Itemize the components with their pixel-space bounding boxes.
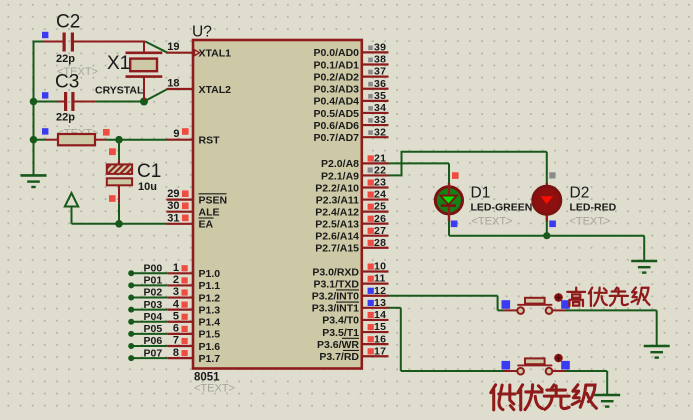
pin 36 P0.3/AD3 stub: [362, 88, 389, 90]
svg-text:9: 9: [173, 128, 179, 140]
wire P03 to pin 4: [131, 309, 193, 311]
pin 35 P0.4/AD4 stub: [362, 100, 389, 102]
power arrow node: [65, 193, 78, 224]
indicator square SW1 right: [561, 300, 570, 309]
pin label PSEN: [199, 194, 228, 207]
indicator square pin 23: [368, 180, 374, 186]
svg-text:P03: P03: [144, 299, 163, 311]
svg-text:PSEN: PSEN: [199, 194, 228, 206]
indicator square pin 37: [368, 70, 373, 75]
svg-text:33: 33: [374, 114, 386, 126]
pin label P0.7/AD7: [313, 132, 359, 144]
net label 低优先级 (low priority): [491, 385, 597, 410]
pin label P1.6: [199, 341, 221, 353]
pin 13 P3.3/INT1 stub: [362, 307, 389, 309]
pin 24 P2.3/A11 stub: [362, 198, 389, 200]
svg-text:31: 31: [167, 212, 179, 224]
svg-text:23: 23: [374, 177, 386, 189]
svg-text:11: 11: [374, 273, 386, 285]
svg-text:LED-GREEN: LED-GREEN: [471, 202, 533, 214]
indicator square pin 28: [368, 240, 374, 246]
indicator square pin 27: [368, 228, 374, 234]
pin number 24: [374, 189, 386, 201]
pin label XTAL2: [199, 84, 232, 96]
svg-text:P0.5/AD5: P0.5/AD5: [313, 108, 359, 120]
text placeholder of C2: [57, 66, 98, 78]
svg-text:P0.3/AD3: P0.3/AD3: [313, 84, 359, 96]
svg-text:C2: C2: [56, 12, 80, 33]
indicator square pin 30: [182, 203, 189, 210]
led D1 LED-GREEN: [435, 183, 462, 222]
svg-text:P1.0: P1.0: [199, 268, 221, 280]
svg-text:22: 22: [374, 165, 386, 177]
svg-text:P0.2/AD2: P0.2/AD2: [313, 71, 359, 83]
indicator square pin 24: [368, 192, 374, 198]
svg-text:P1.1: P1.1: [199, 280, 221, 292]
svg-text:16: 16: [374, 333, 386, 345]
wire P07 to pin 8: [131, 357, 193, 359]
svg-text:P2.5/A13: P2.5/A13: [315, 218, 359, 230]
label C2: [56, 12, 80, 33]
indicator square pin 29: [182, 190, 189, 197]
pin number 19: [167, 41, 179, 53]
svg-text:32: 32: [374, 126, 386, 138]
capacitor C1 electrolytic: [107, 164, 132, 185]
indicator square pin 3: [182, 289, 188, 295]
pin number 9: [173, 128, 179, 140]
label U?: [192, 24, 212, 41]
svg-text:35: 35: [374, 90, 386, 102]
svg-text:P01: P01: [144, 275, 163, 287]
value label CRYSTAL of X1: [95, 85, 144, 97]
svg-text:P00: P00: [144, 263, 163, 275]
wire C2 left lead: [34, 41, 63, 43]
indicator square C2 pin: [42, 32, 48, 38]
pin number 26: [374, 213, 386, 225]
pin number 37: [374, 66, 386, 78]
pin 28 P2.7/A15 stub: [362, 247, 389, 249]
svg-text:P3.0/RXD: P3.0/RXD: [312, 266, 359, 278]
wire D2 cathode down: [546, 221, 548, 236]
indicator square pin 32: [368, 130, 373, 135]
pin 10 P3.0/RXD stub: [362, 270, 389, 272]
indicator square D2 cathode: [549, 221, 556, 228]
svg-text:8: 8: [173, 347, 179, 359]
svg-text:26: 26: [374, 213, 386, 225]
svg-text:P2.3/A11: P2.3/A11: [316, 194, 359, 206]
svg-text:7: 7: [173, 335, 179, 347]
pin 9 RST stub: [167, 139, 194, 141]
label D2: [570, 185, 590, 202]
node P03: [128, 307, 134, 313]
svg-text:4: 4: [173, 298, 180, 310]
svg-text:X1: X1: [107, 53, 130, 74]
svg-text:P0.4/AD4: P0.4/AD4: [313, 96, 359, 108]
svg-text:P1.3: P1.3: [199, 304, 221, 316]
pin label P0.5/AD5: [313, 108, 359, 120]
svg-text:EA: EA: [199, 219, 214, 231]
svg-text:22p: 22p: [56, 53, 75, 65]
pin 33 P0.6/AD6 stub: [362, 124, 389, 126]
svg-text:19: 19: [167, 41, 179, 53]
ground GND of SW1: [644, 346, 670, 358]
indicator square pin 5: [182, 314, 188, 320]
pin 26 P2.5/A13 stub: [362, 223, 389, 225]
pin 12 P3.2/INT0 stub: [362, 295, 389, 297]
pin label P3.5/T1: [322, 327, 359, 339]
node P01: [128, 282, 134, 288]
pin number 33: [374, 114, 386, 126]
pin label P3.0/RXD: [312, 266, 359, 278]
pin label P2.4/A12: [315, 206, 359, 218]
pin 16 P3.6/WR stub: [362, 343, 389, 345]
wire LED common to ground: [449, 236, 644, 261]
net label 高优先级 (high priority): [567, 288, 649, 306]
pin label P1.1: [199, 280, 221, 292]
wire C2 right lead to crystal node: [74, 41, 145, 43]
pin number 1: [173, 262, 179, 274]
net label P00: [144, 263, 163, 275]
pin 31 EA stub: [167, 223, 194, 225]
pin label P1.7: [199, 353, 221, 365]
pin label P2.3/A11: [316, 194, 359, 206]
pin number 18: [167, 78, 179, 90]
svg-text:10u: 10u: [138, 181, 157, 193]
pin number 17: [374, 345, 386, 357]
indicator square pin 14: [368, 312, 374, 318]
wire EA horizontal: [72, 223, 167, 225]
svg-text:<TEXT>: <TEXT>: [194, 383, 235, 395]
node junction crystal-XTAL2: [140, 98, 148, 106]
pin number 38: [374, 54, 386, 66]
svg-text:P3.7/RD: P3.7/RD: [319, 351, 359, 363]
pin label P0.0/AD0: [313, 47, 359, 59]
indicator square pin 35: [368, 94, 373, 99]
label D1: [471, 185, 491, 202]
indicator square pin 38: [368, 58, 373, 63]
wire RST junction to C1: [118, 140, 120, 165]
button SW1: [517, 293, 563, 314]
svg-text:P02: P02: [144, 287, 163, 299]
pin 19 XTAL1 stub: [167, 52, 194, 54]
wire D1 cathode down: [448, 221, 450, 236]
ground GND of LEDs: [631, 261, 657, 273]
pin label P0.3/AD3: [313, 84, 359, 96]
indicator square D1 anode: [452, 172, 459, 179]
svg-text:P3.4/T0: P3.4/T0: [322, 315, 359, 327]
svg-text:C1: C1: [137, 161, 161, 182]
pin label RST: [199, 135, 221, 147]
indicator square pin 22: [368, 167, 373, 172]
pin label P0.4/AD4: [313, 96, 359, 108]
pin 14 P3.4/T0 stub: [362, 319, 389, 321]
value label LED-GREEN: [471, 202, 533, 214]
wire net XTAL1-C2 vertical rail: [33, 41, 35, 176]
node junction D2 bottom: [543, 232, 550, 239]
svg-text:P07: P07: [144, 347, 163, 359]
svg-text:18: 18: [167, 78, 179, 90]
wire pin22 to D2: [389, 151, 547, 184]
pin label XTAL1: [199, 48, 232, 60]
pin label P3.6/WR: [317, 338, 359, 351]
led D2 LED-RED: [533, 183, 561, 222]
indicator square pin 6: [182, 326, 188, 332]
pin number 35: [374, 90, 386, 102]
text placeholder of C3: [58, 128, 99, 140]
indicator square SW1 left: [502, 300, 511, 309]
indicator square resistor right: [103, 129, 110, 136]
pin number 22: [374, 165, 386, 177]
net label P07: [144, 347, 163, 359]
resistor R1 (reset): [58, 134, 95, 145]
pin number 6: [173, 323, 179, 335]
indicator square pin 21: [368, 155, 374, 161]
indicator square pin 15: [368, 324, 374, 330]
svg-text:C3: C3: [55, 72, 79, 93]
pin label P1.3: [199, 304, 221, 316]
svg-text:14: 14: [374, 309, 386, 321]
value label 22p of C2: [56, 53, 75, 65]
svg-text:P2.4/A12: P2.4/A12: [315, 206, 359, 218]
indicator square C3 pin: [42, 92, 48, 98]
pin number 3: [173, 286, 179, 298]
svg-text:CRYSTAL: CRYSTAL: [95, 85, 144, 97]
capacitor C2: [63, 33, 75, 52]
wire SW2 to ground: [553, 371, 608, 395]
svg-text:2: 2: [173, 274, 179, 286]
net label P03: [144, 299, 163, 311]
pin number 12: [374, 285, 386, 297]
wire P05 to pin 6: [131, 333, 193, 335]
svg-text:<TEXT>: <TEXT>: [570, 216, 611, 228]
svg-text:P3.1/TXD: P3.1/TXD: [313, 278, 359, 290]
svg-text:D2: D2: [570, 185, 590, 202]
pin label P2.5/A13: [315, 218, 359, 230]
svg-text:12: 12: [374, 285, 386, 297]
svg-text:36: 36: [374, 78, 386, 90]
pin number 32: [374, 126, 386, 138]
pin label P0.2/AD2: [313, 71, 359, 83]
value label 22p of C3: [56, 112, 75, 124]
svg-text:P0.1/AD1: P0.1/AD1: [313, 59, 359, 71]
indicator square pin 2: [182, 277, 188, 283]
indicator square pin 12: [368, 288, 374, 294]
pin 38 P0.1/AD1 stub: [362, 63, 389, 65]
indicator square pin 9: [182, 128, 189, 135]
pin 37 P0.2/AD2 stub: [362, 76, 389, 78]
node P04: [128, 319, 134, 325]
indicator square SW2 right: [561, 361, 570, 370]
pin label P1.4: [199, 317, 221, 329]
pin number 2: [173, 274, 179, 286]
svg-text:P2.2/A10: P2.2/A10: [315, 182, 359, 194]
pin label P1.2: [199, 292, 221, 304]
pin number 25: [374, 201, 386, 213]
wire P04 to pin 5: [131, 321, 193, 323]
svg-text:P05: P05: [144, 323, 163, 335]
wire crystal to XTAL2 diagonal: [144, 89, 168, 102]
pin number 13: [374, 297, 386, 309]
pin 29 PSEN stub: [167, 199, 194, 201]
capacitor C3: [64, 92, 75, 111]
net label P02: [144, 287, 163, 299]
pin 11 P3.1/TXD stub: [362, 283, 389, 285]
node junction RST-C1: [115, 136, 123, 144]
indicator square pin 1: [182, 265, 188, 271]
svg-text:XTAL2: XTAL2: [199, 84, 232, 96]
pin number 7: [173, 335, 179, 347]
svg-text:P3.5/T1: P3.5/T1: [322, 327, 359, 339]
pin number 31: [167, 212, 179, 224]
svg-text:P3.3/INT1: P3.3/INT1: [312, 303, 359, 315]
label C1: [137, 161, 161, 182]
pin 30 ALE stub: [167, 211, 194, 213]
indicator square RST left: [42, 128, 48, 134]
pin 17 P3.7/RD stub: [362, 355, 389, 357]
pin 15 P3.5/T1 stub: [362, 331, 389, 333]
svg-text:17: 17: [374, 345, 386, 357]
indicator square pin 26: [368, 216, 374, 222]
pin label EA: [199, 218, 214, 231]
svg-text:<TEXT>: <TEXT>: [472, 216, 513, 228]
pin 34 P0.5/AD5 stub: [362, 112, 389, 114]
node junction rail-RST: [30, 136, 38, 144]
svg-text:39: 39: [374, 42, 386, 54]
svg-text:P0.6/AD6: P0.6/AD6: [313, 120, 359, 132]
pin label P0.1/AD1: [313, 59, 359, 71]
svg-text:XTAL1: XTAL1: [199, 48, 232, 60]
svg-text:27: 27: [374, 225, 386, 237]
pin number 28: [374, 237, 386, 249]
ground GND left rail: [21, 175, 47, 187]
pin label P3.4/T0: [322, 315, 359, 327]
pin label P2.1/A9: [321, 170, 359, 182]
svg-text:LED-RED: LED-RED: [570, 202, 617, 214]
svg-text:24: 24: [374, 189, 386, 201]
svg-text:38: 38: [374, 54, 386, 66]
indicator square pin 4: [182, 302, 188, 308]
wire C3 right lead: [75, 101, 145, 103]
svg-text:P1.6: P1.6: [199, 341, 221, 353]
node junction EA wire: [115, 220, 123, 228]
net label P04: [144, 311, 163, 323]
wire pin13 to button SW2: [389, 308, 518, 371]
indicator square D1 cathode: [451, 221, 458, 228]
svg-text:P2.6/A14: P2.6/A14: [315, 231, 359, 243]
pin number 39: [374, 42, 386, 54]
pin 22 P2.1/A9 stub: [362, 174, 389, 176]
indicator square pin 36: [368, 82, 373, 87]
pin number 11: [374, 273, 386, 285]
pin label ALE: [199, 207, 220, 219]
pin number 4: [173, 298, 180, 310]
wire pin12 to button SW1: [389, 296, 518, 311]
indicator square pin 39: [368, 46, 373, 51]
svg-text:P2.0/A8: P2.0/A8: [321, 158, 359, 170]
indicator square D2 anode: [549, 172, 555, 178]
node junction rail-C3: [30, 98, 38, 106]
net label P01: [144, 275, 163, 287]
pin label P1.0: [199, 268, 221, 280]
wire RST left lead: [34, 139, 59, 141]
indicator square below C1: [109, 195, 116, 202]
pin number 23: [374, 177, 386, 189]
pin label P2.6/A14: [315, 231, 359, 243]
wire crystal to XTAL1 diagonal: [145, 42, 167, 53]
pin number 5: [173, 310, 179, 322]
indicator square pin 11: [368, 276, 374, 282]
svg-text:ALE: ALE: [199, 207, 220, 219]
pin label P3.1/TXD: [313, 278, 359, 290]
pin 39 P0.0/AD0 stub: [362, 51, 389, 53]
svg-text:1: 1: [173, 262, 179, 274]
pin 18 XTAL2 stub: [167, 88, 194, 90]
label X1: [107, 53, 130, 74]
wire P01 to pin 2: [131, 284, 193, 286]
svg-text:28: 28: [374, 237, 386, 249]
pin number 36: [374, 78, 386, 90]
op-chip U? 8051 body: [193, 40, 362, 369]
pin number 14: [374, 309, 386, 321]
pin number 27: [374, 225, 386, 237]
svg-text:34: 34: [374, 102, 386, 114]
value label 10u of C1: [138, 181, 157, 193]
wire C3 left lead: [34, 101, 65, 103]
pin label P2.0/A8: [321, 158, 359, 170]
net label P06: [144, 335, 163, 347]
svg-text:P3.2/INT0: P3.2/INT0: [312, 291, 359, 303]
svg-text:15: 15: [374, 321, 386, 333]
wire C1 to EA rail: [118, 185, 120, 223]
pin label P3.7/RD: [319, 350, 359, 363]
node P05: [128, 331, 134, 337]
indicator square pin 31: [182, 215, 189, 222]
pin number 21: [374, 153, 386, 165]
pin 21 P2.0/A8 stub: [362, 162, 389, 164]
crystal X1: [126, 42, 163, 102]
svg-text:P1.7: P1.7: [199, 353, 221, 365]
value label LED-RED: [570, 202, 617, 214]
svg-text:P04: P04: [144, 311, 163, 323]
wire SW1 to ground: [553, 310, 657, 346]
label C3: [55, 72, 79, 93]
indicator square pin 7: [182, 338, 188, 344]
pin label P2.7/A15: [315, 243, 359, 255]
svg-text:37: 37: [374, 66, 386, 78]
text placeholder of D2: [570, 216, 611, 228]
button SW2: [517, 354, 563, 375]
ground GND of SW2: [594, 395, 620, 407]
indicator square pin 16: [368, 336, 374, 342]
pin number 29: [167, 188, 179, 200]
node P02: [128, 295, 134, 301]
pin label P0.6/AD6: [313, 120, 359, 132]
indicator square pin 13: [368, 300, 374, 306]
pin 27 P2.6/A14 stub: [362, 235, 389, 237]
svg-text:13: 13: [374, 297, 386, 309]
text placeholder of U?: [194, 383, 235, 395]
pin number 34: [374, 102, 386, 114]
net label P05: [144, 323, 163, 335]
svg-text:3: 3: [173, 286, 179, 298]
pin number 16: [374, 333, 386, 345]
svg-text:U?: U?: [192, 24, 212, 41]
svg-text:29: 29: [167, 188, 179, 200]
indicator square pin 33: [368, 118, 373, 123]
pin number 10: [374, 261, 386, 273]
pin number 8: [173, 347, 179, 359]
wire pin21 to D1: [389, 163, 450, 183]
